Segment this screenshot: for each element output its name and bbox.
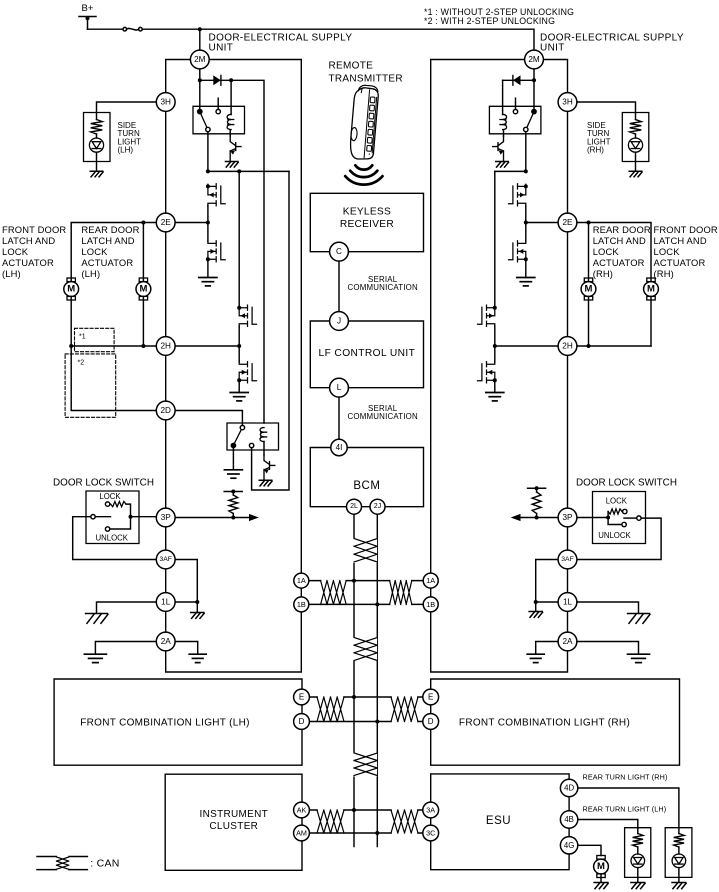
connector E left <box>294 689 310 705</box>
wire left 2E to actuators <box>71 223 208 282</box>
svg-text:DOOR LOCK SWITCH: DOOR LOCK SWITCH <box>53 478 154 489</box>
wire left 1L right to ground <box>175 602 197 613</box>
wire right rear actuator drop <box>588 223 590 282</box>
ground left chain1 <box>199 278 217 286</box>
svg-text:2D: 2D <box>160 406 171 415</box>
wire left 2M to relay contact <box>199 69 201 112</box>
svg-text:FRONT DOOR: FRONT DOOR <box>654 224 718 235</box>
svg-text:LOCK: LOCK <box>81 246 108 257</box>
wire right 2H line <box>577 345 651 347</box>
connector 3C <box>423 825 439 841</box>
node left actuator 2H junction <box>69 344 73 348</box>
wire fuse to node above 2M left <box>142 28 200 30</box>
svg-text:LOCK: LOCK <box>2 246 29 257</box>
LF control unit box <box>310 321 423 388</box>
ground left 2A left <box>84 654 106 662</box>
svg-text:LATCH AND: LATCH AND <box>2 235 55 246</box>
connector 2L <box>347 499 362 514</box>
wire side light LH to ground <box>96 152 98 171</box>
wire right 3P arrow <box>511 514 558 521</box>
wire right coil feed down <box>502 80 504 114</box>
svg-text:J: J <box>337 317 341 326</box>
svg-text:2H: 2H <box>160 342 171 351</box>
twist AK-AM left <box>318 809 343 834</box>
wire right 1L left to ground <box>536 602 558 611</box>
label rear door actuator RH <box>593 224 651 279</box>
connector 4G <box>560 837 577 854</box>
svg-text:*1: *1 <box>79 334 86 341</box>
svg-text:2M: 2M <box>194 55 206 64</box>
wire D row <box>309 721 423 723</box>
node left 1L right <box>195 600 199 604</box>
ground side light RH <box>629 171 642 177</box>
wire 1B row <box>309 603 424 605</box>
svg-text:COMMUNICATION: COMMUNICATION <box>347 283 417 292</box>
diode D1 left <box>200 75 231 85</box>
motor M4 front door actuator RH <box>644 278 659 300</box>
ground left 2A right <box>189 654 206 662</box>
wire node to right 2M drop <box>200 29 534 50</box>
svg-text:ACTUATOR: ACTUATOR <box>2 257 54 268</box>
relay K2 left box <box>227 423 279 450</box>
wire left 2-step drop to 2D <box>71 346 156 411</box>
node CAN-H E <box>352 695 356 699</box>
wire right 2A left to ground <box>536 642 558 655</box>
wire left rear actuator to 2H node <box>142 296 144 346</box>
right door-electrical supply unit box <box>431 60 568 673</box>
svg-text:ACTUATOR: ACTUATOR <box>654 257 706 268</box>
wire pole to 3AF left <box>73 517 157 560</box>
motor M3 rear door actuator RH <box>581 278 596 300</box>
connector 2J <box>370 499 385 514</box>
wire right front actuator to 2H <box>650 296 652 346</box>
wire pole to 3AF right <box>577 518 661 559</box>
node left diode anode <box>198 78 202 82</box>
wire right relay output to node line <box>525 132 527 172</box>
svg-text:KEYLESS: KEYLESS <box>343 207 391 218</box>
svg-text:1A: 1A <box>297 576 306 585</box>
diode D2 right <box>503 75 534 85</box>
svg-text:LOCK: LOCK <box>593 246 620 257</box>
wire 4G to motor <box>578 845 601 855</box>
resistor R1 left <box>229 492 238 518</box>
ground right chain1 <box>517 278 535 286</box>
node left rear actuator 2H junction <box>141 344 145 348</box>
svg-text:M: M <box>585 284 593 295</box>
svg-text:3H: 3H <box>160 98 171 107</box>
wire 4D to rear lamp RH <box>578 788 679 828</box>
wire 1A row <box>309 580 424 582</box>
rear turn light LH box <box>625 828 651 878</box>
label left door-electrical supply unit <box>209 33 353 54</box>
CAN legend symbol <box>37 857 87 870</box>
CAN twist 3 <box>351 753 378 777</box>
svg-text:2E: 2E <box>562 218 573 227</box>
wire right chain2 down <box>494 171 496 305</box>
wire left 3AF to 1L node <box>175 560 197 601</box>
keyless receiver box <box>310 193 423 251</box>
wire C to J serial link <box>338 261 340 311</box>
connector J <box>330 312 349 331</box>
wire right chain2 mid <box>494 326 496 362</box>
switch pole left <box>91 515 111 519</box>
wire left 1L left to ground <box>97 602 157 613</box>
node right 3P resistor <box>535 516 539 520</box>
wire left front actuator to 2H node <box>70 296 72 346</box>
lock contact left <box>105 502 109 506</box>
twist 1A-1B right <box>390 580 411 606</box>
svg-text:FRONT DOOR: FRONT DOOR <box>2 224 66 235</box>
node right rear actuator feed <box>587 221 591 225</box>
svg-text:4I: 4I <box>336 443 343 452</box>
svg-text:(LH): (LH) <box>2 268 21 279</box>
MOSFET Q4 left <box>239 305 256 326</box>
svg-text:LOCK: LOCK <box>606 496 628 505</box>
wire left chain1 to 2E node <box>207 206 209 242</box>
svg-text:TRANSMITTER: TRANSMITTER <box>329 74 403 85</box>
battery terminal B+ <box>79 3 96 29</box>
label side turn light RH <box>587 121 611 155</box>
ground left K2 common <box>224 470 242 478</box>
svg-text:1L: 1L <box>563 598 573 607</box>
node left rear actuator feed <box>141 221 145 225</box>
svg-text:(LH): (LH) <box>81 268 100 279</box>
connector 2A left <box>156 632 175 651</box>
ground left 1L big <box>86 614 108 624</box>
CAN-H wire center <box>353 514 355 846</box>
svg-text:3P: 3P <box>562 513 573 522</box>
ground right 1L big <box>628 614 650 624</box>
twist 1A-1B left <box>321 580 345 606</box>
svg-text:AM: AM <box>296 829 307 838</box>
wire right chain2 to ground <box>494 383 496 393</box>
svg-text:UNLOCK: UNLOCK <box>598 531 631 540</box>
connector 3H right <box>558 93 577 112</box>
left node line y171 <box>208 170 289 172</box>
connector AK <box>294 802 310 818</box>
svg-text:INSTRUMENT: INSTRUMENT <box>200 809 269 820</box>
connector 2A right <box>558 632 577 651</box>
svg-text:2A: 2A <box>161 637 172 646</box>
wire left 2D to relay2 NO <box>175 411 242 426</box>
label serial communication upper <box>347 275 417 292</box>
wire right 2M to relay contact <box>533 69 535 112</box>
label keyless receiver <box>340 207 394 230</box>
label remote transmitter <box>329 60 403 84</box>
svg-text:(LH): (LH) <box>118 146 134 155</box>
svg-text:M: M <box>67 284 75 295</box>
svg-text:C: C <box>336 247 342 256</box>
svg-text:3C: 3C <box>426 829 435 838</box>
svg-text:LATCH AND: LATCH AND <box>81 235 134 246</box>
MOSFET Q2 left <box>208 184 225 206</box>
switch pole right <box>624 516 641 520</box>
node CAN-H 1A <box>352 579 356 583</box>
svg-text:RECEIVER: RECEIVER <box>340 219 394 230</box>
unlock contact right <box>608 518 626 527</box>
svg-text:2H: 2H <box>562 342 573 351</box>
connector 1L left <box>156 593 175 612</box>
dashed box *1 <box>75 328 115 351</box>
left door-electrical supply unit box <box>166 60 302 673</box>
node right rear actuator 2H junction <box>587 344 591 348</box>
wire right 3P into switch <box>577 517 606 519</box>
wire left relay output to node line <box>207 132 209 172</box>
svg-text:3P: 3P <box>161 513 172 522</box>
transistor Q7 right relay driver <box>493 136 504 161</box>
transistor Q6 left relay2 driver <box>264 455 275 480</box>
svg-text:2L: 2L <box>350 503 358 510</box>
svg-text:BCM: BCM <box>353 480 380 492</box>
ground right chain2 <box>486 393 504 401</box>
node CAN-L D <box>375 720 379 724</box>
lamp side turn RH <box>628 138 642 152</box>
ground right 2A left <box>527 654 544 662</box>
label front door actuator LH <box>2 224 66 279</box>
svg-text:1B: 1B <box>297 600 306 609</box>
svg-text:LF CONTROL UNIT: LF CONTROL UNIT <box>319 348 416 359</box>
svg-text:LOCK: LOCK <box>99 492 121 501</box>
note *1 *2 legend <box>424 7 574 26</box>
svg-text:1B: 1B <box>426 600 435 609</box>
svg-text:FRONT COMBINATION LIGHT (RH): FRONT COMBINATION LIGHT (RH) <box>459 718 630 729</box>
MOSFET Q9 right <box>509 241 526 262</box>
right node line y171 <box>495 170 526 172</box>
svg-text:2A: 2A <box>562 637 573 646</box>
BCM box <box>310 448 423 507</box>
MOSFET Q5 left <box>239 362 256 383</box>
wire left K1 coil to transistor <box>229 130 231 137</box>
svg-text:ACTUATOR: ACTUATOR <box>81 257 133 268</box>
wire diode line to relay2 bus left <box>231 80 264 423</box>
wire right chain1 to 2E node <box>525 206 527 242</box>
svg-text:3H: 3H <box>562 98 573 107</box>
MOSFET Q8 right <box>509 184 526 206</box>
node CAN-L AM <box>375 831 379 835</box>
svg-text:COMMUNICATION: COMMUNICATION <box>347 412 417 421</box>
svg-text:4B: 4B <box>564 815 574 824</box>
wire right chain1 to ground <box>525 262 527 278</box>
resistor R4 side light RH <box>630 113 642 139</box>
connector D left <box>294 714 310 730</box>
unlock contact left <box>105 519 130 531</box>
wire E row <box>309 696 423 698</box>
instrument cluster box <box>165 774 302 870</box>
svg-text:: CAN: : CAN <box>90 857 120 869</box>
door lock switch left box <box>86 491 139 544</box>
left 3P pull resistor bar <box>224 490 242 494</box>
wire right 1L right to ground <box>577 602 639 613</box>
svg-text:ACTUATOR: ACTUATOR <box>593 257 645 268</box>
remote transmitter key fob <box>349 85 379 161</box>
svg-text:FRONT COMBINATION LIGHT (LH): FRONT COMBINATION LIGHT (LH) <box>80 718 250 729</box>
ground left chain2 <box>230 393 248 401</box>
MOSFET Q10 right <box>478 305 495 326</box>
svg-text:2M: 2M <box>528 55 540 64</box>
svg-text:REAR DOOR: REAR DOOR <box>81 224 139 235</box>
svg-text:2J: 2J <box>374 503 381 510</box>
connector 4D <box>560 779 577 796</box>
svg-text:L: L <box>337 383 342 392</box>
node above left 2M <box>198 27 202 31</box>
relay K1 left coil <box>227 114 231 129</box>
connector 1A left <box>294 573 309 588</box>
relay K1 left common contact <box>197 109 203 115</box>
connector 3A <box>423 802 439 818</box>
svg-text:E: E <box>428 693 433 702</box>
wire 4B to rear lamp LH <box>578 820 638 828</box>
svg-text:ESU: ESU <box>486 815 511 827</box>
transmitter radio waves <box>345 165 382 184</box>
wire right 3AF to 1L node <box>536 560 558 601</box>
motor M2 rear door actuator LH <box>136 278 151 300</box>
wire left chain2 mid <box>238 326 240 362</box>
wire right rear actuator to 2H <box>588 296 590 346</box>
svg-text:M: M <box>139 284 147 295</box>
node right chain1 top <box>524 169 528 173</box>
ground side light LH <box>90 171 103 177</box>
relay K2 left NO contact <box>240 425 244 429</box>
node left chain2 top <box>237 169 241 173</box>
front combination light RH box <box>431 679 680 765</box>
svg-text:4G: 4G <box>564 841 574 850</box>
svg-text:M: M <box>597 861 605 872</box>
label right door-electrical supply unit <box>540 33 684 54</box>
svg-text:LOCK: LOCK <box>654 246 681 257</box>
connector 2H left <box>156 337 175 356</box>
svg-text:LATCH AND: LATCH AND <box>654 235 707 246</box>
wire right K3 coil to transistor <box>503 130 505 137</box>
node left coil feed <box>229 78 233 82</box>
wire drop to left 2M <box>199 29 201 50</box>
dashed box *2 <box>65 354 116 417</box>
wire lock common to 3P left <box>133 516 156 518</box>
svg-text:3AF: 3AF <box>561 556 573 563</box>
transistor Q1 left relay driver <box>230 136 241 161</box>
MOSFET Q11 right <box>478 362 495 383</box>
relay K3 right coil <box>503 114 507 129</box>
wire left chain2 down <box>238 171 240 305</box>
front combination light LH box <box>54 679 302 765</box>
svg-text:AK: AK <box>297 806 307 815</box>
connector 2E right <box>558 213 577 232</box>
lock contact right <box>608 509 627 518</box>
svg-text:UNIT: UNIT <box>209 43 234 54</box>
left bus to relay2 NC <box>252 171 289 490</box>
svg-text:1L: 1L <box>161 598 171 607</box>
svg-text:UNIT: UNIT <box>540 43 565 54</box>
wire left 3H to side light <box>97 102 157 113</box>
node left 2H <box>237 344 241 348</box>
connector L <box>330 378 349 397</box>
node left 2E <box>206 221 210 225</box>
node right 1L left <box>534 600 538 604</box>
ESU box <box>431 774 569 870</box>
connector 2E left <box>156 213 175 232</box>
relay K3 right armature <box>527 114 533 128</box>
connector 2M left <box>190 50 209 69</box>
ground right 1L small <box>529 612 542 618</box>
wire rear lamp RH to ground <box>678 868 680 883</box>
motor M1 front door actuator LH <box>64 278 79 300</box>
wire left K2 common to ground <box>232 448 234 470</box>
wire right 2H inside <box>495 345 558 347</box>
svg-text:UNLOCK: UNLOCK <box>96 533 129 542</box>
relay K1 left output contact <box>206 127 210 131</box>
ground left 1L small <box>191 613 204 619</box>
wire motor to ground <box>600 874 602 882</box>
wire right 2E to actuators <box>526 223 651 282</box>
wire right 3H to side light <box>577 102 636 113</box>
svg-text:M: M <box>647 284 655 295</box>
svg-text:B+: B+ <box>82 3 94 14</box>
svg-text:*2 : WITH 2-STEP UNLOCKING: *2 : WITH 2-STEP UNLOCKING <box>424 16 555 26</box>
wire left 2A left to ground <box>95 642 156 655</box>
lamp rear turn LH <box>631 854 645 868</box>
resistor R3 side light LH <box>91 113 103 139</box>
ground rear lamp RH <box>672 883 686 889</box>
relay K2 left NC contact <box>249 443 253 447</box>
wire right 2A right to ground <box>577 642 639 655</box>
connector 3P left <box>156 508 175 527</box>
svg-text:E: E <box>299 693 304 702</box>
relay K2 left armature <box>234 430 241 444</box>
svg-text:(RH): (RH) <box>654 268 674 279</box>
svg-text:1A: 1A <box>426 576 435 585</box>
wire rear lamp LH to ground <box>637 868 639 883</box>
wire L to 4I serial link <box>338 397 340 439</box>
relay K3 right NO stub contact <box>513 98 517 114</box>
svg-text:D: D <box>428 717 434 726</box>
wire side light RH to ground <box>635 152 637 171</box>
relay K2 left common contact <box>231 443 237 449</box>
right 3P pull resistor bar <box>528 486 546 490</box>
wire left 2A right to ground <box>175 642 198 655</box>
MOSFET Q3 left <box>208 241 225 262</box>
svg-text:REAR DOOR: REAR DOOR <box>593 224 651 235</box>
svg-text:D: D <box>299 717 305 726</box>
ground rear lamp LH <box>631 883 645 889</box>
twist E-D right <box>392 696 417 723</box>
resistor R5 lock left <box>111 502 131 515</box>
relay K1 left armature <box>201 114 207 128</box>
wire left 3P arrow <box>175 514 259 521</box>
connector C <box>330 242 349 261</box>
node left 3P resistor <box>231 516 235 520</box>
wire AK row <box>309 809 423 811</box>
node right 2H <box>493 344 497 348</box>
label rear door actuator LH <box>81 224 139 279</box>
connector E right <box>423 689 439 705</box>
fusible link <box>123 27 142 31</box>
svg-text:(RH): (RH) <box>587 146 604 155</box>
resistor R7 rear lamp RH <box>674 828 684 854</box>
svg-text:CLUSTER: CLUSTER <box>209 821 258 832</box>
wire B+ feed to fuse <box>88 28 124 30</box>
node right diode anode <box>532 78 536 82</box>
twist 3A-3C right <box>392 809 417 834</box>
node CAN-L 1B <box>375 602 379 606</box>
svg-text:4D: 4D <box>564 784 574 793</box>
connector 4B <box>560 811 577 828</box>
wire left K2 coil to transistor <box>263 442 265 456</box>
connector 3AF left <box>156 550 175 569</box>
side turn light LH box <box>84 113 111 162</box>
connector 2H right <box>558 337 577 356</box>
resistor R6 rear lamp LH <box>633 828 643 854</box>
svg-text:REAR TURN LIGHT (LH): REAR TURN LIGHT (LH) <box>583 804 667 813</box>
motor M5 trunk actuator <box>594 856 609 878</box>
